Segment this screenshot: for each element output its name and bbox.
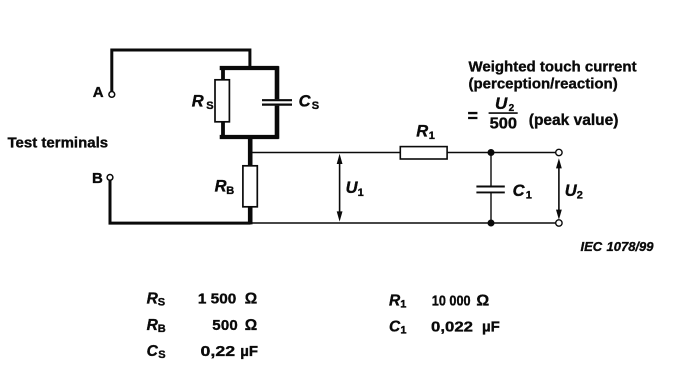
svg-text:R: R [192, 93, 204, 111]
svg-text:S: S [206, 100, 213, 112]
svg-text:U: U [495, 94, 508, 113]
svg-text:S: S [158, 349, 165, 361]
svg-text:IEC: IEC [581, 239, 603, 254]
svg-text:Ω: Ω [245, 291, 257, 308]
svg-text:B: B [226, 185, 234, 197]
svg-text:µF: µF [482, 319, 500, 336]
svg-text:1: 1 [429, 130, 435, 142]
svg-text:1078/99: 1078/99 [607, 239, 655, 254]
svg-text:C: C [147, 343, 159, 360]
svg-text:1: 1 [400, 299, 406, 311]
svg-text:B: B [92, 170, 103, 187]
svg-text:C: C [389, 319, 401, 336]
svg-text:1 500: 1 500 [198, 291, 236, 308]
svg-text:R: R [416, 123, 428, 141]
svg-text:R: R [147, 291, 159, 308]
svg-text:0,22: 0,22 [201, 343, 236, 360]
svg-text:Weighted touch current: Weighted touch current [469, 58, 637, 75]
svg-text:S: S [158, 297, 165, 309]
svg-text:Test terminals: Test terminals [8, 135, 109, 152]
svg-text:C: C [299, 93, 312, 111]
svg-text:S: S [312, 100, 319, 112]
svg-text:10 000: 10 000 [432, 293, 471, 309]
svg-text:R: R [147, 317, 159, 334]
svg-text:(perception/reaction): (perception/reaction) [469, 76, 618, 93]
svg-text:µF: µF [240, 343, 258, 360]
svg-text:1: 1 [526, 189, 532, 201]
svg-text:500: 500 [212, 317, 238, 334]
svg-text:=: = [468, 106, 479, 126]
svg-text:500: 500 [490, 116, 517, 133]
svg-text:C: C [513, 182, 526, 200]
svg-text:1: 1 [358, 187, 364, 199]
svg-text:R: R [215, 177, 227, 195]
svg-text:Ω: Ω [245, 317, 257, 334]
svg-text:(peak value): (peak value) [529, 112, 619, 129]
svg-text:2: 2 [509, 103, 515, 114]
svg-text:1: 1 [400, 325, 406, 337]
svg-text:A: A [93, 84, 104, 101]
svg-text:Ω: Ω [476, 292, 489, 309]
svg-text:2: 2 [577, 189, 583, 201]
svg-text:R: R [389, 292, 401, 309]
svg-text:B: B [158, 323, 166, 335]
svg-text:0,022: 0,022 [431, 319, 473, 336]
